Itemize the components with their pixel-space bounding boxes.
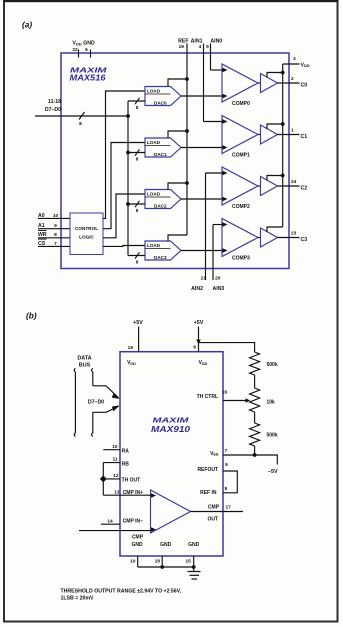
svg-text:C3: C3 [301,237,308,243]
wire data bus to DAC2 [128,203,145,205]
svg-text:–5V: –5V [268,469,278,475]
svg-text:DAC0: DAC0 [154,100,167,105]
wire load DAC2 from control logic [103,194,145,238]
svg-text:500k: 500k [267,362,278,368]
svg-text:D7–D0: D7–D0 [88,400,104,406]
op-amp COMP2 [222,167,258,205]
svg-text:DAC1: DAC1 [154,152,167,157]
svg-text:TH OUT: TH OUT [122,478,141,484]
bus slash 8 (DAC0) [135,98,140,104]
svg-text:LOAD: LOAD [147,243,161,248]
svg-text:CMP IN+: CMP IN+ [123,490,143,496]
svg-text:VDD: VDD [72,41,81,47]
wire output C1 pin 1 [278,134,300,136]
op-amp COMP3 [222,219,258,257]
svg-text:REF: REF [178,38,188,44]
wire data bus to DAC0 [128,100,145,102]
svg-text:16: 16 [222,389,228,395]
IC box U2 MAX910 [120,352,223,556]
svg-text:RA: RA [122,449,130,455]
svg-text:9: 9 [225,462,228,468]
bus line right [92,368,93,436]
wire REF to DAC2 [168,183,187,190]
svg-text:AIN3: AIN3 [213,286,225,292]
svg-text:RB: RB [122,461,130,467]
wire ground bus [138,566,194,568]
wire pull-up COMP2 to VDD rail [267,176,283,181]
ground symbol [188,571,201,573]
svg-text:8: 8 [224,486,227,492]
svg-text:14: 14 [107,518,113,524]
svg-text:10: 10 [130,558,136,564]
svg-text:20: 20 [215,275,221,281]
pin 10 RA [103,449,120,451]
svg-text:8: 8 [136,208,139,213]
svg-text:8: 8 [136,260,139,265]
wire output C3 pin 23 [278,237,300,239]
svg-text:MAXIM: MAXIM [153,418,189,425]
wire [254,412,256,423]
svg-text:CMP: CMP [208,504,220,510]
svg-text:8: 8 [79,121,82,127]
resistor R2 10k (TH adjust) [250,388,260,412]
wire load DAC3 from control logic [103,245,145,248]
svg-text:1: 1 [291,128,294,134]
svg-text:19: 19 [179,44,185,50]
bus slash 8 (DAC2) [135,201,140,207]
op-amp COMP0 [222,64,258,102]
control logic block [70,213,103,255]
svg-text:17: 17 [226,505,232,511]
svg-text:AIN1: AIN1 [191,38,203,44]
wire +5V to resistor divider [199,343,255,352]
pin 3 VDD output [283,63,300,65]
pin 11 RB [103,462,120,464]
resistor R1 500k [250,352,260,375]
pin 13 CMP IN+ [103,494,150,496]
bus line left [74,368,75,436]
node VDD rail [282,64,284,227]
svg-text:REF IN: REF IN [200,490,217,496]
svg-text:12: 12 [113,473,119,479]
bus slash 8 (DAC1) [135,149,140,155]
svg-text:11: 11 [113,457,118,463]
bus arrow D7-D0 [93,386,119,398]
DAC3 block [145,241,181,260]
op-amp COMP1 [222,116,258,154]
svg-text:1LSB = 20mV: 1LSB = 20mV [61,596,95,602]
svg-text:VDD: VDD [127,360,136,366]
wire load DAC0 from control logic [103,91,145,218]
wire REFOUT to REF IN jumper [223,471,237,493]
bus slash 8 (DAC3) [135,252,140,258]
svg-text:GND: GND [160,542,172,548]
node REF vertical net [186,44,188,236]
svg-text:OUT: OUT [207,516,218,522]
svg-text:15: 15 [185,558,191,564]
svg-text:LOAD: LOAD [147,192,161,197]
svg-text:CMP: CMP [132,535,144,541]
wire DAC1 output to COMP1 [181,147,222,149]
svg-text:(a): (a) [22,20,32,30]
svg-text:8: 8 [136,105,139,110]
DAC2 block [145,190,181,209]
svg-text:CMP IN–: CMP IN– [123,518,143,524]
buffer stage COMP1 [258,134,261,136]
IC box U1 MAX516 [61,53,289,269]
wire feedback bracket 11-12-13 [102,463,104,496]
wire REF to DAC1 [168,131,187,138]
svg-text:3: 3 [293,56,296,62]
pin 21 AIN2 [205,173,207,280]
svg-text:LOGIC: LOGIC [79,235,94,240]
wire pull-up COMP0 to VDD rail [267,73,283,78]
svg-text:10k: 10k [267,399,276,405]
svg-text:+5V: +5V [194,320,204,326]
svg-text:21: 21 [201,275,207,281]
node data bus rail [127,101,129,256]
svg-text:TH CTRL: TH CTRL [197,394,218,400]
DAC0 block [145,87,181,106]
svg-text:DAC3: DAC3 [154,255,167,260]
svg-text:22: 22 [72,47,78,53]
node AIN0 vertical net [210,44,212,71]
op-amp comparator U2 [151,490,191,533]
pin 12 TH OUT [103,478,120,480]
svg-text:GND: GND [188,542,200,548]
node AIN1 vertical net [203,44,205,122]
svg-text:COMP3: COMP3 [232,255,250,261]
svg-text:C1: C1 [301,134,308,140]
svg-text:2: 2 [291,76,294,82]
svg-text:VDD: VDD [301,62,310,68]
svg-text:C2: C2 [301,186,308,192]
svg-text:+5V: +5V [133,320,143,326]
svg-text:11-18: 11-18 [48,99,61,105]
wire REF to DAC3 [168,235,187,241]
wire D7-D0 bus [35,115,128,117]
svg-text:7: 7 [225,448,228,454]
wire AIN to COMP1 + input [204,121,223,123]
svg-text:4: 4 [199,44,202,50]
svg-text:COMP0: COMP0 [232,101,250,107]
svg-text:VEE: VEE [210,451,219,457]
svg-text:10: 10 [112,444,118,450]
svg-text:6: 6 [193,345,196,351]
wire output C0 pin 2 [278,82,300,84]
svg-text:VDD: VDD [199,360,208,366]
wire pull-up COMP3 to VDD rail [267,227,283,232]
wire AIN to COMP2 + input [206,172,223,174]
bus slash 8 (D7-D0) [79,112,85,120]
wire DAC0 output to COMP0 [181,95,222,97]
svg-text:DATA: DATA [77,356,91,362]
svg-text:COMP1: COMP1 [232,152,250,158]
svg-text:D7–D0: D7–D0 [45,107,61,113]
wire output C2 pin 24 [278,185,300,187]
wire AIN to COMP3 + input [213,224,222,226]
svg-text:LOAD: LOAD [147,89,161,94]
svg-text:AIN0: AIN0 [210,38,222,44]
wire data bus to DAC3 [128,255,145,257]
wire DAC3 output to COMP3 [181,250,222,252]
buffer stage COMP2 [258,185,261,187]
pin 20 AIN3 [212,225,214,281]
svg-text:LOAD: LOAD [147,140,161,145]
wire [254,375,256,388]
svg-text:REFOUT: REFOUT [197,467,218,473]
svg-text:5: 5 [206,44,209,50]
wire [254,446,256,455]
svg-text:(b): (b) [26,311,37,321]
svg-text:23: 23 [291,231,297,237]
pin 17 CMP OUT [191,511,244,513]
pin 14 CMP IN- [101,523,120,525]
resistor R3 500k [250,423,260,446]
svg-text:COMP2: COMP2 [232,204,250,210]
buffer stage COMP3 [258,237,261,239]
svg-text:CONTROL: CONTROL [75,226,98,231]
svg-text:24: 24 [291,179,297,185]
wire AIN to COMP0 + input [211,69,223,71]
svg-text:6: 6 [85,47,88,53]
DAC1 block [145,138,181,157]
wire DAC2 output to COMP2 [181,198,222,200]
svg-text:19: 19 [128,345,134,351]
svg-text:8: 8 [136,157,139,162]
svg-text:AIN2: AIN2 [191,286,203,292]
svg-text:C0: C0 [301,83,308,89]
buffer stage COMP0 [258,82,261,84]
wire pull-up COMP1 to VDD rail [267,124,283,129]
svg-text:GND: GND [131,542,143,548]
wire REF to DAC0 [168,79,187,87]
svg-text:MAX516: MAX516 [70,74,107,83]
svg-text:THRESHOLD OUTPUT RANGE ±2.94V: THRESHOLD OUTPUT RANGE ±2.94V TO +2.56V, [61,589,182,595]
svg-text:20: 20 [155,558,161,564]
svg-text:MAX910: MAX910 [151,425,191,434]
svg-text:DAC2: DAC2 [154,203,167,208]
svg-text:500k: 500k [267,433,278,439]
wire load DAC1 from control logic [103,143,145,229]
wire data bus to DAC1 [128,152,145,154]
svg-text:GND: GND [83,41,95,47]
wire CMP IN- input [79,530,151,532]
svg-text:13: 13 [114,489,120,495]
svg-text:BUS: BUS [79,363,91,369]
